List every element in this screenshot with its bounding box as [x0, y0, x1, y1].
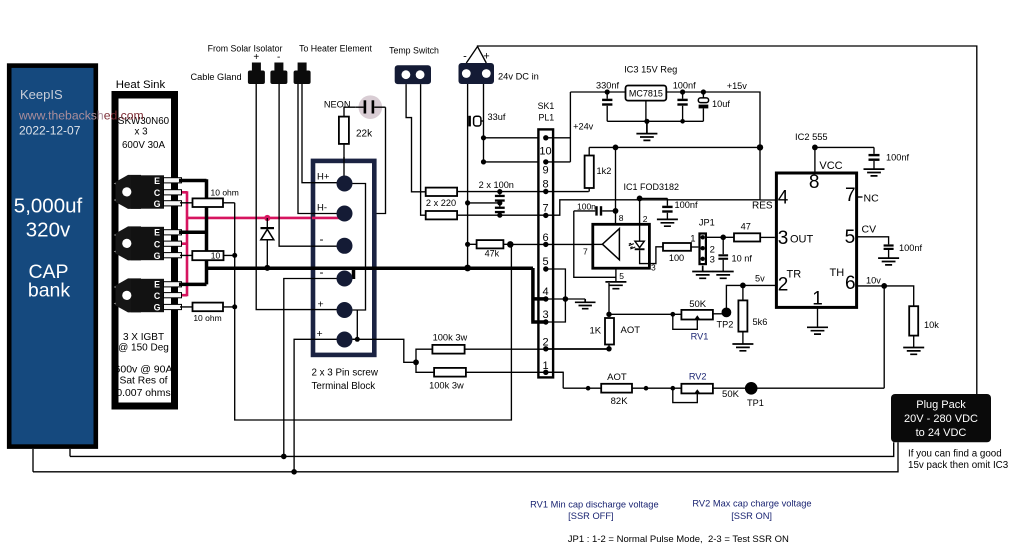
- transistor Q3 SKW30N60: [114, 278, 182, 312]
- svg-text:2 x 3 Pin screw: 2 x 3 Pin screw: [312, 368, 379, 379]
- pink collector wire C3: [166, 294, 187, 297]
- wire SK1 pin1 to AOT row: [546, 371, 563, 373]
- IC1 pin7 label: [583, 247, 588, 257]
- svg-text:7: 7: [583, 247, 588, 257]
- svg-text:x 3: x 3: [134, 127, 148, 138]
- cable gland 1 solar +: [248, 52, 265, 84]
- svg-text:RV2 Max cap charge voltage: RV2 Max cap charge voltage: [692, 499, 811, 509]
- wire JP1 pin1 to 47: [707, 235, 734, 241]
- svg-text:3: 3: [778, 228, 789, 249]
- svg-text:To Heater Element: To Heater Element: [299, 44, 372, 54]
- resistor 10 ohm gate Q3: [180, 303, 237, 323]
- svg-text:20V - 280 VDC: 20V - 280 VDC: [904, 413, 978, 425]
- svg-text:100nf: 100nf: [675, 200, 698, 210]
- capacitor 10uf: [698, 89, 730, 121]
- wire cap bank bottom left to lower rail: [32, 449, 34, 472]
- svg-text:Heat Sink: Heat Sink: [116, 79, 166, 91]
- svg-text:2 x 220: 2 x 220: [426, 198, 456, 208]
- svg-text:RV2: RV2: [689, 372, 707, 382]
- svg-text:100k 3w: 100k 3w: [433, 332, 468, 342]
- svg-text:bank: bank: [28, 280, 71, 302]
- svg-text:100nf: 100nf: [899, 243, 922, 253]
- svg-text:Temp Switch: Temp Switch: [389, 46, 439, 56]
- svg-text:1: 1: [690, 233, 695, 244]
- capacitor bank box: [9, 66, 96, 447]
- svg-text:+15v: +15v: [727, 81, 748, 91]
- IC2 pin7 NC stub: [857, 193, 879, 205]
- wire +15v output rail: [589, 92, 763, 200]
- svg-text:8: 8: [809, 172, 820, 193]
- wire entry pin5: [311, 309, 338, 311]
- svg-text:-: -: [320, 232, 324, 246]
- SK1 pin dots: [543, 135, 548, 375]
- wire H+ to inner column and pin5: [353, 184, 366, 311]
- svg-text:[SSR ON]: [SSR ON]: [731, 511, 772, 521]
- svg-text:10 nf: 10 nf: [732, 254, 753, 264]
- note JP1 modes: [568, 534, 789, 545]
- svg-text:50K: 50K: [722, 389, 740, 400]
- svg-text:9: 9: [542, 165, 548, 177]
- resistor 100k 3w upper: [413, 332, 609, 365]
- svg-text:600v @ 90A: 600v @ 90A: [115, 364, 173, 376]
- svg-text:to 24 VDC: to 24 VDC: [916, 427, 967, 439]
- svg-text:CV: CV: [862, 224, 877, 236]
- IC2 pin2 5v wire: [740, 274, 776, 289]
- transistor Q2 SKW30N60: [114, 226, 182, 260]
- note RV1: [530, 499, 659, 521]
- svg-text:3 X IGBT: 3 X IGBT: [123, 332, 164, 343]
- jumper JP1: [690, 218, 715, 266]
- wire emitter Q2: [179, 231, 207, 235]
- wire 24v minus rail vertical: [464, 84, 471, 271]
- wire 24v input V joint to plug pack: [466, 46, 977, 394]
- wire TP2 to 5v node: [726, 285, 743, 312]
- svg-text:IC1 FOD3182: IC1 FOD3182: [624, 182, 680, 192]
- cable gland 2 solar -: [270, 52, 287, 84]
- svg-text:G: G: [154, 251, 161, 261]
- pink wire to H- terminal: [187, 217, 345, 220]
- svg-text:5v: 5v: [755, 274, 765, 284]
- wire neon to 22k: [344, 107, 356, 116]
- svg-text:E: E: [154, 176, 160, 186]
- svg-text:TP1: TP1: [747, 398, 764, 408]
- svg-text:JP1 : 1-2 = Normal Pulse Mode,: JP1 : 1-2 = Normal Pulse Mode, 2-3 = Tes…: [568, 534, 789, 545]
- capacitor 10nf: [718, 237, 752, 271]
- svg-text:RV1 Min cap discharge voltage: RV1 Min cap discharge voltage: [530, 499, 659, 509]
- label +24v: [573, 121, 594, 131]
- connector 24v DC in: [459, 51, 539, 85]
- IC2 VCC stub: [812, 145, 843, 174]
- svg-text:5: 5: [619, 271, 624, 281]
- svg-text:10uf: 10uf: [712, 99, 730, 109]
- svg-text:TH: TH: [830, 267, 845, 279]
- svg-text:Sat Res of: Sat Res of: [119, 376, 167, 387]
- label IC1 FOD3182: [624, 182, 680, 192]
- svg-text:IC2 555: IC2 555: [795, 132, 828, 142]
- regulator MC7815: [626, 86, 667, 122]
- svg-text:24v DC in: 24v DC in: [498, 72, 539, 82]
- wire ground to 1K top: [608, 283, 610, 314]
- resistor 5k6: [738, 285, 767, 343]
- wire +15v rail to vcc cap: [815, 146, 874, 148]
- svg-text:SK1: SK1: [538, 101, 555, 111]
- svg-text:3: 3: [651, 263, 656, 273]
- svg-text:+24v: +24v: [573, 121, 594, 131]
- wire entry pin3: [311, 245, 338, 247]
- gate drive common wire: [235, 203, 512, 420]
- emitter bus vertical wire: [205, 179, 209, 284]
- IC1 pin3 label: [651, 263, 656, 273]
- IC2 pin5 CV cap: [857, 224, 923, 258]
- resistor 10 gate Q2: [180, 251, 237, 261]
- capacitor 100nf IC2 vcc: [869, 147, 910, 168]
- ground IC2 vcc cap: [864, 169, 885, 176]
- svg-text:100n: 100n: [577, 202, 596, 212]
- plug pack note: [908, 449, 1009, 472]
- ground CV cap: [878, 258, 899, 265]
- wire neon right to H-: [353, 107, 386, 213]
- svg-text:600V 30A: 600V 30A: [122, 140, 165, 151]
- ground JP1: [692, 266, 713, 279]
- resistor 10k: [909, 306, 939, 347]
- bottom AOT RV2 line: [563, 386, 884, 391]
- svg-text:100nf: 100nf: [886, 153, 909, 163]
- svg-text:47k: 47k: [485, 249, 500, 259]
- cable gland 3 heater: [294, 63, 311, 85]
- capacitor 100n IC1: [574, 202, 616, 216]
- label +15v: [727, 81, 748, 91]
- svg-text:10k: 10k: [924, 320, 939, 330]
- heat sink frame: [112, 79, 179, 410]
- resistor 82K AOT: [601, 372, 632, 407]
- pink collector bus vertical: [186, 191, 189, 296]
- potentiometer RV1 50K: [673, 299, 713, 342]
- svg-text:RV1: RV1: [691, 332, 709, 342]
- wire cap bank bottom right to upper rail: [69, 449, 71, 456]
- svg-text:-: -: [463, 51, 467, 63]
- neon lamp: [324, 95, 386, 119]
- jumper SK1 pins 10-9 to +24v: [546, 92, 571, 162]
- wire emitter Q3: [179, 283, 207, 287]
- svg-text:100: 100: [669, 253, 684, 263]
- wire temp switch right to 220 resistor B: [421, 84, 426, 215]
- svg-text:100nf: 100nf: [673, 80, 696, 90]
- svg-text:100k 3w: 100k 3w: [429, 380, 464, 390]
- capacitors 2 x 100n: [465, 189, 505, 218]
- svg-text:[SSR OFF]: [SSR OFF]: [568, 511, 613, 521]
- svg-text:+: +: [318, 299, 324, 311]
- svg-text:+: +: [253, 52, 259, 63]
- temp switch: [389, 46, 439, 85]
- svg-text:From Solar Isolator: From Solar Isolator: [208, 44, 283, 54]
- wire gland3 to H+: [302, 84, 338, 183]
- svg-text:8: 8: [542, 179, 548, 191]
- svg-text:1: 1: [812, 289, 823, 310]
- svg-text:2022-12-07: 2022-12-07: [19, 124, 81, 138]
- label Cable Gland: [191, 72, 242, 82]
- svg-text:C: C: [154, 239, 161, 249]
- IC2 pin6 10v wire: [857, 275, 914, 306]
- svg-text:Plug Pack: Plug Pack: [916, 399, 966, 411]
- svg-text:6: 6: [845, 273, 856, 294]
- svg-text:2: 2: [643, 214, 648, 224]
- svg-text:0.007 ohms: 0.007 ohms: [116, 388, 170, 399]
- connector SK1 PL1: [538, 101, 555, 377]
- svg-text:C: C: [154, 291, 161, 301]
- svg-text:50K: 50K: [689, 299, 707, 310]
- capacitor 33uf: [468, 112, 506, 126]
- resistor 47k: [465, 240, 510, 258]
- svg-text:2 x 100n: 2 x 100n: [479, 180, 514, 190]
- resistor 100: [663, 243, 698, 263]
- capacitor 100nf reg output: [673, 80, 696, 123]
- IC1 pin2 stub and LED: [635, 196, 663, 264]
- svg-text:@ 150 Deg: @ 150 Deg: [118, 343, 169, 354]
- svg-text:5: 5: [845, 227, 856, 248]
- svg-text:NC: NC: [864, 193, 880, 205]
- svg-text:IC3 15V Reg: IC3 15V Reg: [624, 64, 677, 74]
- svg-text:10 ohm: 10 ohm: [211, 188, 239, 198]
- pink wire segment into H-: [312, 217, 345, 220]
- wire pin6 to 100k resistors: [353, 339, 417, 362]
- note RV2: [692, 499, 811, 521]
- svg-text:NEON: NEON: [324, 100, 351, 110]
- potentiometer RV2 50K: [673, 372, 740, 403]
- svg-text:If you can find a good: If you can find a good: [908, 449, 1002, 460]
- label To Heater Element: [299, 44, 372, 54]
- svg-text:RES: RES: [752, 201, 773, 212]
- wire entry H-: [311, 213, 338, 215]
- ground IC2 pin1: [807, 327, 828, 334]
- terminal pins: [337, 176, 353, 348]
- optocoupler IC1 box: [591, 224, 649, 268]
- IC2 pin4 stub: [760, 199, 776, 201]
- IC1 output triangle: [602, 229, 619, 260]
- regulator IC3 section label: [624, 64, 677, 74]
- wire 1K top to RV1: [609, 312, 681, 317]
- resistor 2x220 A: [426, 180, 589, 196]
- wire SK1 pin5 pin4 pin3 to ground: [546, 269, 585, 322]
- thick stub bus to pin4: [352, 267, 356, 280]
- wire +15v to IC1 vcc node: [613, 145, 619, 214]
- wire entry H+: [311, 182, 338, 184]
- svg-text:10: 10: [539, 146, 551, 158]
- wire 100n return to IC1 pin5: [574, 211, 616, 277]
- svg-text:+: +: [483, 51, 489, 63]
- resistor 10 ohm gate Q1: [180, 188, 239, 208]
- resistor 22k: [339, 117, 373, 176]
- svg-text:82K: 82K: [611, 396, 629, 407]
- svg-text:5: 5: [542, 256, 548, 268]
- svg-text:-: -: [277, 52, 280, 63]
- test point TP2: [713, 308, 733, 330]
- svg-text:AOT: AOT: [607, 372, 627, 383]
- resistor 1k2: [585, 147, 612, 191]
- svg-text:TP2: TP2: [717, 320, 734, 330]
- transistor Q1 SKW30N60: [114, 175, 182, 209]
- wire pin5 to pin6 link: [353, 310, 360, 342]
- plug pack box: [891, 394, 991, 442]
- svg-text:33uf: 33uf: [488, 112, 506, 122]
- svg-text:10v: 10v: [866, 275, 881, 285]
- svg-text:H+: H+: [317, 172, 330, 183]
- thick bus link to SK1 pins 4,3: [531, 268, 546, 322]
- wire 22k lead into block: [343, 157, 345, 176]
- ground 100nf IC1: [657, 219, 678, 226]
- svg-text:VCC: VCC: [819, 160, 842, 172]
- wire emitter Q1: [179, 179, 207, 183]
- svg-text:+: +: [317, 328, 323, 340]
- LED arrows: [629, 243, 636, 249]
- svg-text:5k6: 5k6: [753, 317, 768, 327]
- capacitor 330nf: [596, 81, 619, 122]
- resistor 47: [734, 221, 775, 241]
- wire 47k junction to IC1 pin7 and SK1 pin6: [507, 241, 602, 248]
- svg-text:E: E: [154, 228, 160, 238]
- wire gland2 to terminal - pin3: [279, 84, 338, 246]
- svg-text:Terminal Block: Terminal Block: [312, 381, 376, 392]
- pink collector wire C1: [166, 191, 187, 194]
- svg-text:JP1: JP1: [699, 218, 715, 228]
- wire gland3 to H-: [298, 84, 338, 214]
- svg-text:KeepIS: KeepIS: [20, 87, 63, 102]
- svg-text:47: 47: [741, 221, 751, 231]
- diode across H- to bus: [261, 218, 275, 271]
- wire temp switch left to 220 resistor A: [406, 84, 426, 192]
- svg-text:10 ohm: 10 ohm: [193, 313, 221, 323]
- svg-text:PL1: PL1: [538, 113, 554, 123]
- wire SK1 pin2 row: [546, 348, 609, 350]
- svg-text:OUT: OUT: [790, 234, 814, 246]
- wire terminal pin4 to lower rail: [281, 279, 338, 460]
- label From Solar Isolator: [208, 44, 283, 54]
- svg-text:www.thebackshed.com: www.thebackshed.com: [18, 109, 144, 123]
- label RES: [752, 201, 773, 212]
- svg-text:7: 7: [542, 203, 548, 215]
- ground 5k6: [732, 344, 753, 351]
- svg-text:10: 10: [211, 251, 221, 261]
- svg-text:AOT: AOT: [621, 325, 641, 336]
- svg-text:320v: 320v: [26, 219, 71, 242]
- svg-text:7: 7: [845, 185, 856, 206]
- IC2 pin1 stub: [817, 307, 819, 327]
- resistor 100k 3w lower: [416, 362, 563, 390]
- svg-text:15v pack then omit IC3: 15v pack then omit IC3: [908, 460, 1009, 471]
- svg-text:4: 4: [778, 188, 789, 209]
- ground IC3: [636, 121, 657, 140]
- svg-text:E: E: [154, 280, 160, 290]
- resistor 2x220 B: [426, 198, 760, 219]
- pink junction node: [264, 215, 270, 221]
- wire gland1 to terminal + pin5: [256, 84, 338, 310]
- capacitor 100nf IC1 pin2: [640, 198, 698, 219]
- svg-text:H-: H-: [317, 203, 327, 214]
- svg-text:330nf: 330nf: [596, 81, 619, 91]
- svg-text:3: 3: [542, 309, 548, 321]
- resistor 1K: [590, 312, 641, 352]
- ground rail IC3: [607, 119, 703, 124]
- svg-text:TR: TR: [787, 269, 802, 281]
- svg-text:C: C: [154, 188, 161, 198]
- wire 10v node down to TP1 line: [883, 286, 885, 388]
- pink collector wire C2: [166, 242, 187, 245]
- website text overlay: [18, 109, 144, 123]
- svg-text:22k: 22k: [356, 129, 373, 140]
- ground 10k: [903, 348, 924, 355]
- lower negative rail: [70, 442, 894, 456]
- svg-text:G: G: [154, 303, 161, 313]
- IC2 555 timer box: [776, 132, 856, 310]
- svg-text:MC7815: MC7815: [629, 89, 663, 99]
- svg-text:1K: 1K: [590, 326, 602, 337]
- test point TP1: [745, 382, 764, 408]
- svg-text:4: 4: [542, 286, 548, 298]
- wire terminal pin6 to bottom rail: [291, 339, 338, 474]
- ground SK1 pins: [575, 299, 596, 309]
- svg-text:8: 8: [619, 213, 624, 223]
- terminal block 2x3: [312, 161, 379, 392]
- svg-text:Cable Gland: Cable Gland: [191, 72, 242, 82]
- svg-text:5,000uf: 5,000uf: [14, 195, 83, 218]
- ground 10nf: [713, 272, 734, 279]
- IC1 pin8 stub: [616, 211, 624, 224]
- svg-text:1k2: 1k2: [597, 166, 612, 176]
- ground IC1 pin5: [605, 282, 626, 289]
- IC1 pin5 stub: [616, 268, 624, 281]
- wire +24v input rail: [570, 91, 625, 93]
- svg-text:3: 3: [710, 255, 715, 266]
- svg-text:G: G: [154, 199, 161, 209]
- bottom positive rail: [33, 442, 898, 472]
- wire 24v plus to SK1 pins 10 9: [481, 84, 546, 164]
- main negative bus wire: [205, 266, 533, 270]
